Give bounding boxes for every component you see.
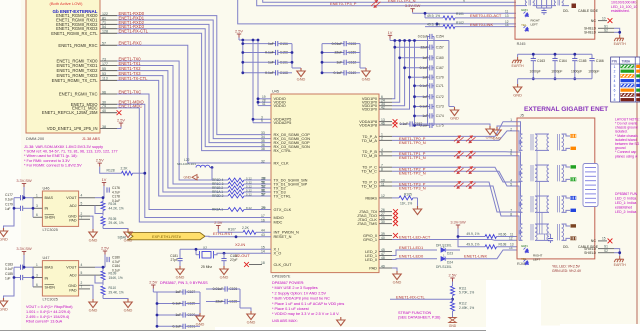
cap C164 1000pF: [554, 54, 556, 58]
svg-text:U45: U45: [272, 90, 279, 94]
svg-text:53: 53: [102, 72, 106, 76]
svg-text:VDDIO: VDDIO: [274, 103, 286, 108]
svg-text:C173: C173: [436, 105, 444, 109]
svg-text:2.5V: 2.5V: [235, 29, 243, 34]
wire ENET1-TX-CTL: [117, 80, 228, 196]
svg-text:0.01uF: 0.01uF: [418, 35, 428, 39]
svg-text:40: 40: [102, 109, 106, 113]
svg-text:DD-: DD-: [563, 245, 569, 249]
svg-text:ENET0-TP3_P: ENET0-TP3_P: [330, 1, 357, 6]
connector J5 RJ45 ENET1: [517, 118, 595, 259]
svg-text:TD_M_A: TD_M_A: [362, 138, 378, 143]
wire ENET1-MDC: [117, 108, 271, 222]
svg-text:1uF: 1uF: [422, 75, 428, 79]
svg-text:LTC3025: LTC3025: [43, 297, 58, 301]
resistor R105L 29.4K: [101, 217, 105, 226]
svg-text:GND: GND: [220, 275, 229, 280]
svg-text:3: 3: [36, 204, 38, 208]
svg-text:GND: GND: [0, 307, 8, 312]
svg-text:27pF: 27pF: [170, 258, 178, 262]
svg-text:LEFT: LEFT: [533, 258, 541, 262]
svg-text:R107: R107: [228, 228, 236, 232]
svg-text:ENET1-TP3_N: ENET1-TP3_N: [399, 185, 426, 190]
svg-text:9: 9: [463, 0, 465, 3]
svg-text:5.70K, 1%: 5.70K, 1%: [459, 291, 474, 295]
color chip group 3: [571, 196, 577, 199]
svg-text:10/100/1000 Mb: 10/100/1000 Mb: [611, 0, 636, 4]
svg-text:* Place 0.1 uF closest: * Place 0.1 uF closest: [272, 307, 310, 311]
IC U45 DP83867E PHY: [271, 94, 379, 273]
svg-text:PAD: PAD: [69, 219, 77, 223]
svg-text:14: 14: [505, 23, 509, 27]
no-connect X on J1.38 pin 40: [117, 110, 122, 115]
color chip group 2: [571, 165, 577, 168]
wire ENET1-TX3: [117, 76, 228, 192]
svg-text:0.1uF: 0.1uF: [420, 84, 428, 88]
svg-text:. C166: . C166: [594, 59, 604, 63]
svg-text:GND: GND: [247, 320, 256, 325]
svg-text:EARTH: EARTH: [614, 263, 627, 267]
svg-text:7: 7: [81, 285, 83, 289]
svg-text:38: 38: [261, 147, 265, 151]
sheet border right: [636, 0, 638, 331]
earth symbol for cap bank: [512, 57, 522, 63]
svg-text:R128: R128: [107, 168, 115, 172]
resistor R110 29.4K: [101, 286, 105, 295]
svg-text:9: 9: [261, 119, 263, 123]
svg-text:U45 ABS MAX:: U45 ABS MAX:: [272, 319, 298, 323]
svg-text:. C164: . C164: [557, 59, 567, 63]
svg-text:Rbot current= 13.6uA: Rbot current= 13.6uA: [26, 320, 63, 324]
svg-text:0.1uF: 0.1uF: [265, 71, 274, 75]
net ENET0-TP3_N: [263, 0, 516, 2]
svg-text:ADJ: ADJ: [70, 274, 77, 278]
connector RJ45 ENET0 partial: [515, 0, 595, 39]
svg-text:ENET1-TP1_N: ENET1-TP1_N: [399, 155, 426, 160]
ground for bypass bank 1: [292, 67, 301, 69]
svg-text:R102: R102: [456, 21, 464, 25]
svg-text:(Both Active LOW): (Both Active LOW): [50, 1, 84, 6]
svg-text:3.3V-SW: 3.3V-SW: [16, 178, 32, 183]
svg-text:0.1uF: 0.1uF: [173, 325, 182, 329]
choke group 1: [535, 133, 549, 135]
svg-text:ENET1_RGMII_TX_CTL: ENET1_RGMII_TX_CTL: [52, 78, 99, 83]
svg-text:LED_0: Indica: LED_0: Indica: [615, 197, 636, 201]
svg-text:EARTH: EARTH: [614, 42, 627, 46]
wire ENET1-TX1: [117, 66, 228, 185]
svg-text:38: 38: [102, 125, 106, 129]
svg-text:57: 57: [261, 192, 265, 196]
svg-text:10: 10: [602, 17, 606, 21]
svg-text:1uF: 1uF: [5, 207, 11, 211]
svg-text:7: 7: [81, 215, 83, 219]
svg-text:* When used for ENET1 (p. 18):: * When used for ENET1 (p. 18):: [24, 154, 78, 158]
svg-text:6: 6: [36, 283, 38, 287]
svg-text:EXP-ETH1-RST#: EXP-ETH1-RST#: [152, 235, 182, 239]
svg-text:RJ45: RJ45: [517, 42, 526, 46]
svg-text:TD_M_D: TD_M_D: [361, 183, 377, 188]
svg-text:2.2K: 2.2K: [121, 166, 129, 170]
ground for cap stack: [448, 41, 450, 107]
svg-text:15: 15: [602, 237, 606, 241]
svg-text:C157: C157: [436, 45, 444, 49]
svg-text:GND: GND: [183, 176, 191, 180]
svg-text:GND: GND: [89, 238, 98, 243]
svg-text:established: established: [615, 206, 632, 210]
svg-text:2.2K: 2.2K: [242, 226, 250, 230]
svg-text:SHDN: SHDN: [45, 216, 56, 220]
svg-text:2.5V: 2.5V: [117, 118, 125, 123]
svg-text:* For RMII: connect to 3.3V: * For RMII: connect to 3.3V: [24, 159, 70, 163]
svg-text:3: 3: [614, 74, 616, 78]
svg-text:ENET1-LINK: ENET1-LINK: [464, 254, 487, 259]
ground for RBIAS: [413, 206, 421, 215]
svg-text:11: 11: [381, 182, 385, 186]
wire ENET1-TXC: [117, 94, 228, 210]
svg-text:R106: R106: [499, 232, 507, 236]
svg-text:GND: GND: [0, 237, 8, 242]
svg-text:X2-IN: X2-IN: [235, 242, 245, 247]
ENET0 transformer remnants: [525, 0, 527, 6]
svg-text:27pF: 27pF: [230, 258, 238, 262]
choke group 3: [535, 195, 549, 197]
svg-text:LED_2: Indica: LED_2: Indica: [615, 210, 636, 214]
svg-text:RBIAS: RBIAS: [365, 195, 377, 200]
svg-text:VDD_ENET1_1P8_2P5_IN: VDD_ENET1_1P8_2P5_IN: [47, 126, 98, 131]
svg-text:C154: C154: [436, 35, 444, 39]
svg-text:3.3V-SW: 3.3V-SW: [16, 246, 32, 251]
svg-text:J5: J5: [520, 113, 524, 117]
ground bottom bank: [247, 311, 255, 320]
svg-text:PAD: PAD: [69, 288, 77, 292]
choke group 4: [535, 223, 549, 225]
svg-text:48: 48: [381, 256, 385, 260]
wires ENET0 LED rows: [413, 12, 516, 14]
svg-text:1V: 1V: [388, 30, 393, 35]
svg-text:LED_1: Indica: LED_1: Indica: [615, 201, 636, 205]
wire ENET1-TP0_P: [392, 122, 517, 137]
svg-text:0.1uF: 0.1uF: [173, 302, 182, 306]
svg-text:R101: R101: [456, 12, 464, 16]
svg-text:154K, 1%: 154K, 1%: [109, 276, 123, 280]
svg-text:3.3V-SW: 3.3V-SW: [450, 220, 466, 225]
svg-text:17: 17: [261, 214, 265, 218]
svg-text:1uF: 1uF: [422, 95, 428, 99]
svg-text:22uF: 22uF: [334, 51, 342, 55]
svg-text:11: 11: [505, 10, 509, 14]
svg-text:29.4K, 1%: 29.4K, 1%: [109, 291, 124, 295]
svg-text:BIAS: BIAS: [45, 266, 54, 270]
svg-text:CLK_OUT: CLK_OUT: [274, 262, 293, 267]
svg-text:IN: IN: [45, 207, 49, 211]
no-connect X CLK_OUT: [249, 264, 262, 266]
svg-text:49: 49: [381, 264, 385, 268]
regulator U46 LTC3025: [42, 191, 78, 226]
wire ENET1-TX2: [117, 71, 228, 188]
svg-text:ENET1_RGMII_TXC: ENET1_RGMII_TXC: [59, 92, 98, 97]
svg-text:55: 55: [102, 67, 106, 71]
svg-text:57: 57: [102, 42, 106, 46]
svg-text:* SOM ref: 40, 54-57, 71, 73,: * SOM ref: 40, 54-57, 71, 73, 81, 96, 11…: [24, 150, 118, 154]
ground left bottom bank: [196, 313, 204, 322]
earth J5 shield: [614, 256, 624, 262]
svg-text:12: 12: [381, 194, 385, 198]
wire ENET1-RXD2: [117, 24, 271, 142]
svg-text:VDD1P0: VDD1P0: [362, 107, 378, 112]
svg-text:GND: GND: [89, 308, 98, 313]
wire ENET1-TP3_N: [392, 186, 517, 216]
ground for C182: [220, 266, 228, 275]
svg-text:* Place 1 uF and 0.1 uF ACAP t: * Place 1 uF and 0.1 uF ACAP to VDD pins: [272, 302, 344, 306]
svg-text:29: 29: [261, 206, 265, 210]
svg-text:GPIO_1: GPIO_1: [363, 237, 377, 242]
net ENET1-LED0 diode D24: [392, 258, 437, 261]
cap C163 1000pF: [532, 54, 534, 58]
svg-text:7: 7: [614, 93, 616, 97]
svg-text:GRN: GRN: [521, 8, 528, 12]
svg-text:ENET1-LED-ACT: ENET1-LED-ACT: [399, 235, 431, 240]
svg-text:C182: C182: [230, 254, 238, 258]
svg-text:YEL: YEL: [521, 23, 527, 27]
svg-text:6: 6: [36, 213, 38, 217]
svg-text:GTX_CLK: GTX_CLK: [274, 207, 292, 212]
svg-text:30: 30: [381, 220, 385, 224]
svg-text:2.49K, 1%: 2.49K, 1%: [459, 306, 474, 310]
svg-text:42: 42: [381, 105, 385, 109]
regulator U47 LTC3025: [42, 261, 78, 296]
svg-text:3.3V-SW: 3.3V-SW: [405, 3, 421, 8]
caps C186 C188: [206, 288, 225, 290]
svg-text:GND: GND: [124, 308, 133, 313]
svg-text:2: 2: [510, 127, 512, 131]
svg-text:1000pF: 1000pF: [530, 70, 541, 74]
svg-text:0.1uF: 0.1uF: [420, 105, 428, 109]
svg-text:2.495 = 0.4*(1+ 154/29.4): 2.495 = 0.4*(1+ 154/29.4): [26, 315, 70, 319]
svg-text:YEL LED: Vf<2.5V: YEL LED: Vf<2.5V: [552, 265, 581, 269]
ground stub mid-bottom: [337, 317, 345, 326]
svg-text:RX_CTRL: RX_CTRL: [274, 148, 293, 153]
svg-text:* VDDIO may be 3.3 V or 2.5 V: * VDDIO may be 3.3 V or 2.5 V or 1.8 V.: [272, 312, 339, 316]
svg-text:1000pF: 1000pF: [571, 70, 582, 74]
wire ENET1-TP2_P: [392, 167, 517, 182]
svg-text:C174: C174: [436, 114, 444, 118]
transformer group 4 in J5: [517, 212, 523, 224]
U47 pins: [33, 266, 42, 268]
svg-text:40: 40: [381, 236, 385, 240]
wire ENET1-TP3_P: [392, 182, 517, 212]
svg-text:ENET1-LED1: ENET1-LED1: [399, 245, 424, 250]
resistor R108 49.9: [458, 237, 485, 247]
ground U47 input caps: [0, 298, 8, 307]
svg-text:1uF: 1uF: [422, 56, 428, 60]
svg-text:ENET1_RGMII_RX_CTL: ENET1_RGMII_RX_CTL: [51, 31, 98, 36]
svg-text:74: 74: [102, 104, 106, 108]
svg-text:D23: D23: [447, 252, 453, 256]
transformer group 2 in J5: [517, 152, 523, 165]
svg-text:ENET1-LED0: ENET1-LED0: [399, 254, 424, 259]
no-connect X GPIO_0: [393, 233, 398, 238]
caps C187 C189 C190 C191: [156, 292, 158, 326]
svg-text:* For RGMII: connect to 1.8V/2: * For RGMII: connect to 1.8V/2.5V: [24, 163, 82, 167]
svg-text:1: 1: [510, 118, 512, 122]
svg-text:0.1uF: 0.1uF: [5, 267, 13, 271]
svg-text:1: 1: [614, 65, 616, 69]
svg-text:SHIELD: SHIELD: [584, 30, 597, 34]
svg-text:DIMM-200: DIMM-200: [26, 136, 45, 141]
wire 2.5V to VDDIO: [257, 40, 259, 106]
diff pair markers ENET1: [454, 136, 464, 143]
svg-text:1uF: 1uF: [5, 276, 11, 280]
ground bowtie strap: [449, 318, 456, 323]
svg-text:0.1uF: 0.1uF: [420, 66, 428, 70]
ground for bypass bank 2: [360, 67, 366, 69]
svg-text:C160: C160: [436, 56, 444, 60]
svg-text:C172: C172: [436, 95, 444, 99]
U46 pins: [33, 197, 42, 199]
ground for C181: [176, 266, 184, 275]
wire ENET1-RXC: [117, 45, 271, 163]
svg-text:IN: IN: [45, 276, 49, 280]
grounds U46: [90, 216, 93, 229]
svg-text:49.9, 1%: 49.9, 1%: [427, 14, 440, 18]
svg-text:VOUT: VOUT: [66, 266, 77, 270]
svg-text:NFL1005-101: NFL1005-101: [177, 162, 196, 166]
svg-text:EXTERNAL GIGABIT ENET: EXTERNAL GIGABIT ENET: [524, 106, 608, 113]
svg-text:5: 5: [614, 84, 616, 88]
svg-text:PAD: PAD: [369, 265, 377, 270]
svg-text:1.001 = 0.4*(1+ 44.2/29.4): 1.001 = 0.4*(1+ 44.2/29.4): [26, 310, 71, 314]
svg-text:49.9, 1%: 49.9, 1%: [466, 243, 479, 247]
svg-text:ENET1-RX-CTL: ENET1-RX-CTL: [396, 294, 425, 299]
svg-text:LEFT: LEFT: [531, 23, 539, 27]
svg-text:NC: NC: [591, 239, 597, 243]
center tap GND J5: [497, 126, 520, 127]
no-connect X VDDA1P8: [393, 119, 398, 124]
svg-text:49.9, 1%: 49.9, 1%: [466, 232, 479, 236]
svg-text:0.1uF: 0.1uF: [400, 122, 409, 126]
tap cap group 3: [521, 203, 522, 205]
svg-text:X_O: X_O: [274, 251, 282, 256]
svg-text:PIN: PIN: [612, 60, 618, 64]
svg-text:TM8A: TM8A: [622, 60, 631, 64]
svg-text:GND: GND: [176, 275, 185, 280]
svg-text:16: 16: [261, 218, 265, 222]
connector J1.38 DIMM-200: [26, 0, 100, 133]
svg-text:. C163: . C163: [535, 59, 545, 63]
wire ENET1-MDIO: [117, 104, 271, 217]
svg-text:planes using vi: planes using vi: [615, 154, 638, 158]
svg-text:GND: GND: [393, 280, 402, 285]
svg-text:U47: U47: [43, 256, 50, 260]
svg-text:177: 177: [102, 62, 108, 66]
svg-text:GND: GND: [297, 77, 306, 82]
choke group 2: [535, 164, 549, 166]
svg-text:0.1uF: 0.1uF: [5, 197, 13, 201]
svg-text:DD-: DD-: [563, 9, 569, 13]
color chip group 1: [571, 134, 577, 137]
svg-text:ENET1_RGMII_RXC: ENET1_RGMII_RXC: [58, 43, 97, 48]
svg-text:8: 8: [510, 212, 512, 216]
svg-text:4: 4: [81, 194, 83, 198]
wire ENET1-RXD1: [117, 20, 271, 139]
svg-text:GND: GND: [450, 116, 459, 121]
svg-text:5: 5: [510, 182, 512, 186]
svg-text:STRAP FUNCTION: STRAP FUNCTION: [398, 311, 432, 315]
svg-text:RESET_N: RESET_N: [274, 234, 292, 239]
svg-text:122: 122: [102, 12, 108, 16]
svg-text:LED_10_100_10: LED_10_100_10: [611, 5, 637, 9]
resistor R105 11K RBIAS: [399, 196, 413, 200]
svg-text:1uF: 1uF: [268, 61, 274, 65]
svg-text:0.01uF: 0.01uF: [213, 287, 224, 291]
cap bank rail: [518, 53, 592, 55]
wire ENET1-TP1_N: [392, 155, 517, 157]
VDD1P0 wires to 1V rail: [392, 41, 395, 99]
svg-text:5: 5: [81, 201, 83, 205]
earth ENET0 shield: [614, 35, 624, 41]
svg-text:5: 5: [381, 152, 383, 156]
svg-text:1000pF: 1000pF: [588, 70, 599, 74]
resistor R112 2.49K: [451, 302, 455, 312]
svg-text:1uF: 1uF: [175, 290, 181, 294]
svg-text:DFLS130L: DFLS130L: [436, 265, 452, 269]
svg-text:GND: GND: [124, 238, 133, 243]
svg-text:4: 4: [614, 79, 616, 83]
net ENET1-LED1 diode D23: [392, 250, 437, 256]
svg-text:DP83867E: DP83867E: [272, 275, 291, 279]
table T568A pinout: [611, 57, 640, 102]
svg-text:1uF: 1uF: [175, 313, 181, 317]
svg-text:2: 2: [381, 137, 383, 141]
svg-text:1: 1: [36, 263, 38, 267]
svg-text:2.5V: 2.5V: [96, 158, 104, 163]
svg-text:R108: R108: [499, 243, 507, 247]
decoupling stack C154-C175: [427, 37, 429, 126]
ground for U45 PAD: [392, 268, 397, 271]
svg-text:GND: GND: [362, 77, 371, 82]
svg-text:VDDA1P8: VDDA1P8: [359, 122, 377, 127]
svg-text:ENET1_REFCLK_125M_25M: ENET1_REFCLK_125M_25M: [42, 110, 98, 115]
svg-text:C167: C167: [436, 66, 444, 70]
svg-text:0.1uF: 0.1uF: [265, 51, 274, 55]
color chip group 4: [571, 224, 577, 227]
diff marker ENET0 pair: [371, 0, 381, 7]
svg-text:73: 73: [102, 57, 106, 61]
wire ENET1-TX0: [117, 61, 228, 180]
svg-text:6: 6: [510, 152, 512, 156]
svg-text:25 Mhz: 25 Mhz: [201, 265, 212, 269]
svg-text:MDC: MDC: [274, 219, 283, 224]
transformer group 1 in J5: [517, 122, 523, 134]
svg-text:established.: established.: [611, 9, 630, 13]
grounds U47: [90, 285, 93, 299]
svg-text:3: 3: [36, 273, 38, 277]
svg-text:2.5V: 2.5V: [214, 220, 222, 225]
svg-text:128: 128: [102, 30, 108, 34]
svg-text:BIAS: BIAS: [45, 196, 54, 200]
svg-text:SHDN: SHDN: [45, 285, 56, 289]
svg-text:ENET1-TP2_N: ENET1-TP2_N: [399, 171, 426, 176]
svg-text:RR2D 2: RR2D 2: [212, 194, 224, 198]
cap C153 0.1uF: [400, 123, 410, 125]
svg-text:13: 13: [505, 14, 509, 18]
svg-text:LTC3025: LTC3025: [43, 228, 58, 232]
svg-text:0.01uF: 0.01uF: [332, 42, 343, 46]
svg-text:GRN LED: Vf<2.4V: GRN LED: Vf<2.4V: [552, 269, 582, 273]
svg-text:DP83867 FUN: DP83867 FUN: [615, 192, 638, 196]
svg-text:11K, 1%: 11K, 1%: [400, 202, 412, 206]
svg-text:J1.38 ABS: J1.38 ABS: [82, 136, 101, 141]
